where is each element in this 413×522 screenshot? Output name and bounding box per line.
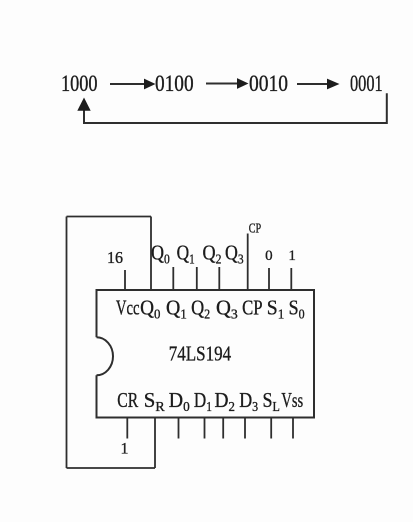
IC U1 74LS194 body <box>97 290 315 418</box>
pin CR stub <box>126 418 128 439</box>
svg-text:1000: 1000 <box>61 71 98 96</box>
svg-text:1: 1 <box>288 248 296 264</box>
pin SL stub <box>270 418 272 439</box>
svg-text:CR: CR <box>117 388 138 412</box>
svg-text:0: 0 <box>265 248 273 264</box>
wire CP <box>247 234 249 291</box>
svg-text:1: 1 <box>121 441 129 458</box>
pin D1 stub <box>204 418 206 439</box>
feedback loop wire left <box>66 217 68 469</box>
svg-text:CP: CP <box>249 222 261 237</box>
wire SR to loop <box>154 418 156 469</box>
pin Vss stub <box>292 418 294 439</box>
svg-text:CP: CP <box>242 296 262 320</box>
feedback loop wire bottom <box>67 467 156 469</box>
svg-text:Vss: Vss <box>281 388 303 412</box>
svg-text:16: 16 <box>107 248 123 267</box>
pin D3 stub <box>244 418 246 439</box>
svg-text:74LS194: 74LS194 <box>169 342 232 366</box>
pin Q3 stub <box>218 267 220 290</box>
pin S0 stub <box>290 268 292 290</box>
pin D2 stub <box>222 418 224 439</box>
svg-text:0100: 0100 <box>155 71 194 96</box>
pin D0 stub <box>178 418 180 439</box>
feedback loop wire top <box>67 216 152 218</box>
svg-text:Vcc: Vcc <box>116 296 140 320</box>
feedback loop wire Q0 drop <box>150 217 152 291</box>
arrowhead up at 1000 <box>77 98 90 111</box>
wire arrow 1000 to 0100 <box>110 79 156 90</box>
feedback wire 0001 to 1000 <box>84 93 387 123</box>
IC notch <box>97 337 114 375</box>
svg-text:0001: 0001 <box>350 71 383 96</box>
svg-text:0010: 0010 <box>249 71 288 96</box>
wire arrow 0100 to 0010 <box>206 78 249 89</box>
wire arrow 0010 to 0001 <box>297 79 340 90</box>
pin S1 stub <box>268 268 270 290</box>
pin Q1 stub <box>172 267 174 290</box>
pin 16 stub <box>124 270 126 290</box>
pin Q2 stub <box>196 267 198 290</box>
